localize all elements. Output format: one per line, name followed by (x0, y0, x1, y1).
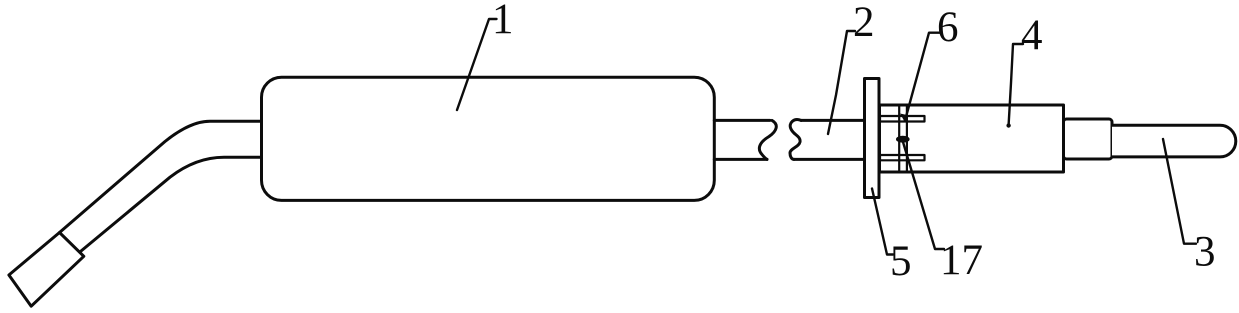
svg-text:2: 2 (853, 0, 875, 46)
svg-text:5: 5 (890, 238, 912, 285)
svg-text:3: 3 (1194, 229, 1216, 276)
svg-text:4: 4 (1021, 12, 1043, 59)
svg-text:1: 1 (492, 0, 514, 43)
svg-text:17: 17 (940, 237, 983, 284)
svg-text:6: 6 (937, 4, 959, 51)
